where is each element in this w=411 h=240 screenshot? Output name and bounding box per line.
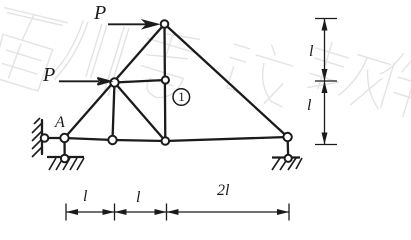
label A (55, 114, 65, 132)
load P1 arrow (108, 21, 157, 28)
node M2 (162, 76, 169, 83)
node A (60, 134, 68, 142)
char shi (220, 34, 298, 108)
char chuan (50, 11, 129, 96)
dim label l right upper (309, 43, 313, 61)
watermark stroke group (faint) (0, 4, 411, 121)
middle tick (315, 80, 337, 82)
label P1 (94, 2, 106, 25)
node R (283, 133, 291, 141)
circle below R (285, 155, 292, 162)
member M1-B2 diagonal (115, 83, 166, 142)
char kao (132, 25, 200, 105)
support link A down (63, 138, 65, 159)
support link R down (286, 137, 289, 158)
tick 2 (114, 204, 116, 221)
node B2 (162, 137, 170, 145)
ground line under A (47, 156, 84, 158)
node M1 (110, 78, 118, 86)
right vertical dimension line (315, 19, 337, 145)
member M1-B1 vertical (113, 83, 115, 141)
node T (161, 20, 169, 28)
support link wall to A (44, 137, 65, 139)
dim label l bottom 2 (136, 189, 140, 207)
member T-R right slope (165, 24, 288, 137)
char jian (370, 49, 411, 121)
char ruan (303, 38, 393, 112)
char bai (0, 4, 67, 93)
member label circle 1 (173, 89, 190, 106)
tick 4 (288, 204, 290, 221)
ground hatching under R (272, 158, 302, 170)
wall hatching (32, 118, 42, 157)
tick 1 (65, 204, 67, 221)
node B1 (108, 136, 116, 144)
wall pin circle (41, 134, 49, 142)
dim label 2l bottom (217, 182, 229, 200)
ground hatching under A (49, 158, 84, 170)
member A-M1-T left slope (65, 24, 165, 138)
member T-M2-B2 vertical (163, 24, 166, 141)
load P2 arrow (59, 78, 110, 85)
main ink (42, 24, 288, 159)
circle below A (61, 155, 69, 163)
label P2 (43, 64, 55, 87)
tick 3 (166, 204, 168, 221)
bottom dimension arrowheads (66, 209, 289, 215)
wall line (41, 120, 43, 154)
dim label l bottom 1 (83, 188, 87, 206)
dim label l right lower (307, 97, 311, 115)
bottom dimension line (66, 204, 289, 221)
vertical dimension arrowheads (322, 19, 328, 145)
ground line under R (272, 156, 300, 158)
bottom chord A-B1-B2-R (65, 137, 288, 141)
top tick (315, 18, 337, 20)
member M1-M2 horizontal (115, 80, 166, 83)
label 1 inside circle (175, 89, 188, 105)
bottom tick (315, 144, 337, 146)
